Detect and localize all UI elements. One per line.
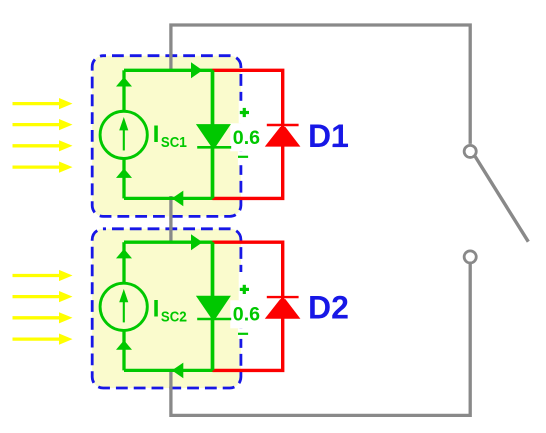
svg-text:D1: D1 xyxy=(308,118,349,154)
svg-text:0.6: 0.6 xyxy=(233,304,260,326)
svg-text:I: I xyxy=(153,121,160,148)
svg-text:0.6: 0.6 xyxy=(233,127,260,149)
svg-text:SC2: SC2 xyxy=(161,309,187,325)
svg-text:I: I xyxy=(153,296,160,323)
svg-text:D2: D2 xyxy=(308,290,349,326)
svg-text:SC1: SC1 xyxy=(161,135,187,151)
